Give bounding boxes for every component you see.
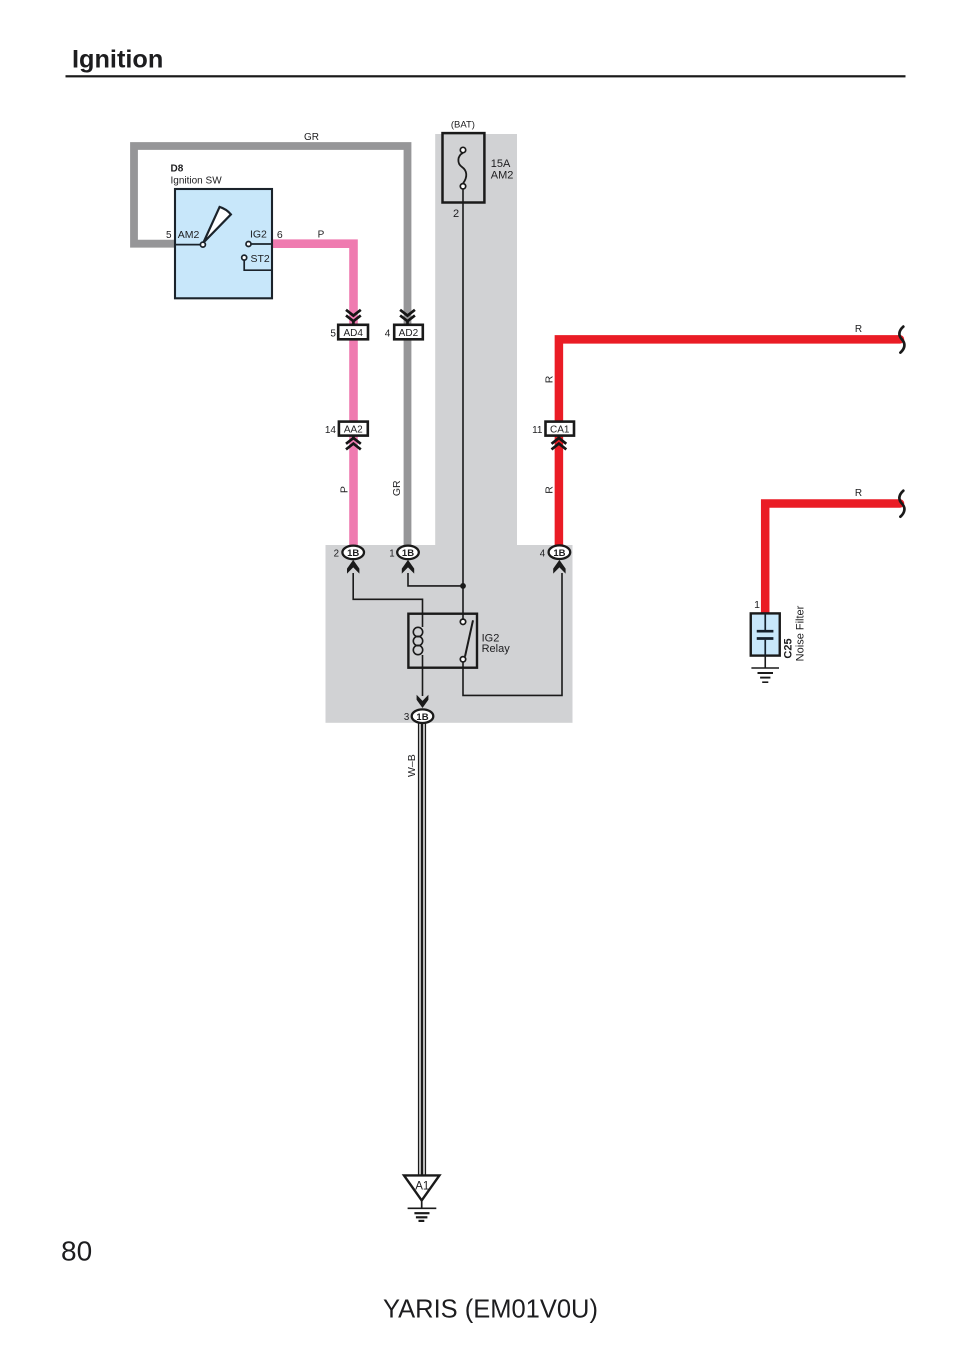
svg-text:5: 5 xyxy=(166,230,172,241)
svg-text:2: 2 xyxy=(334,548,339,559)
svg-text:11: 11 xyxy=(532,425,543,436)
svg-text:D8: D8 xyxy=(171,164,184,175)
svg-text:4: 4 xyxy=(540,548,546,559)
svg-text:R: R xyxy=(544,375,556,383)
svg-text:ST2: ST2 xyxy=(251,253,270,265)
svg-text:P: P xyxy=(338,486,350,493)
svg-text:AM2: AM2 xyxy=(491,169,514,181)
svg-text:15A: 15A xyxy=(491,158,511,170)
svg-text:AD2: AD2 xyxy=(399,328,419,339)
svg-text:3: 3 xyxy=(404,712,409,723)
svg-text:W–B: W–B xyxy=(406,754,418,777)
svg-text:1: 1 xyxy=(389,548,394,559)
svg-text:R: R xyxy=(855,324,862,335)
svg-text:GR: GR xyxy=(391,480,403,496)
svg-text:R: R xyxy=(544,486,556,494)
svg-text:AM2: AM2 xyxy=(178,229,200,241)
svg-text:1B: 1B xyxy=(553,548,565,559)
svg-text:5: 5 xyxy=(330,328,336,339)
svg-text:2: 2 xyxy=(453,208,459,220)
svg-text:Noise Filter: Noise Filter xyxy=(795,605,807,661)
svg-text:(BAT): (BAT) xyxy=(451,119,475,130)
svg-text:GR: GR xyxy=(304,132,319,143)
svg-text:CA1: CA1 xyxy=(550,425,570,436)
svg-text:4: 4 xyxy=(385,328,391,339)
svg-text:AA2: AA2 xyxy=(344,425,363,436)
svg-text:1B: 1B xyxy=(416,712,428,723)
svg-text:A1: A1 xyxy=(415,1181,429,1193)
svg-text:Relay: Relay xyxy=(482,643,511,655)
svg-text:1B: 1B xyxy=(347,548,359,559)
svg-text:P: P xyxy=(318,230,325,241)
svg-text:Ignition: Ignition xyxy=(72,46,163,74)
svg-text:AD4: AD4 xyxy=(343,328,363,339)
svg-text:1B: 1B xyxy=(402,548,414,559)
svg-text:IG2: IG2 xyxy=(250,229,267,241)
svg-text:1: 1 xyxy=(754,599,760,611)
svg-text:80: 80 xyxy=(61,1236,92,1267)
svg-text:YARIS (EM01V0U): YARIS (EM01V0U) xyxy=(383,1296,598,1324)
svg-text:C25: C25 xyxy=(782,638,794,658)
svg-text:14: 14 xyxy=(325,425,337,436)
svg-text:Ignition SW: Ignition SW xyxy=(171,176,223,187)
svg-text:6: 6 xyxy=(277,229,283,241)
svg-text:R: R xyxy=(855,488,862,499)
